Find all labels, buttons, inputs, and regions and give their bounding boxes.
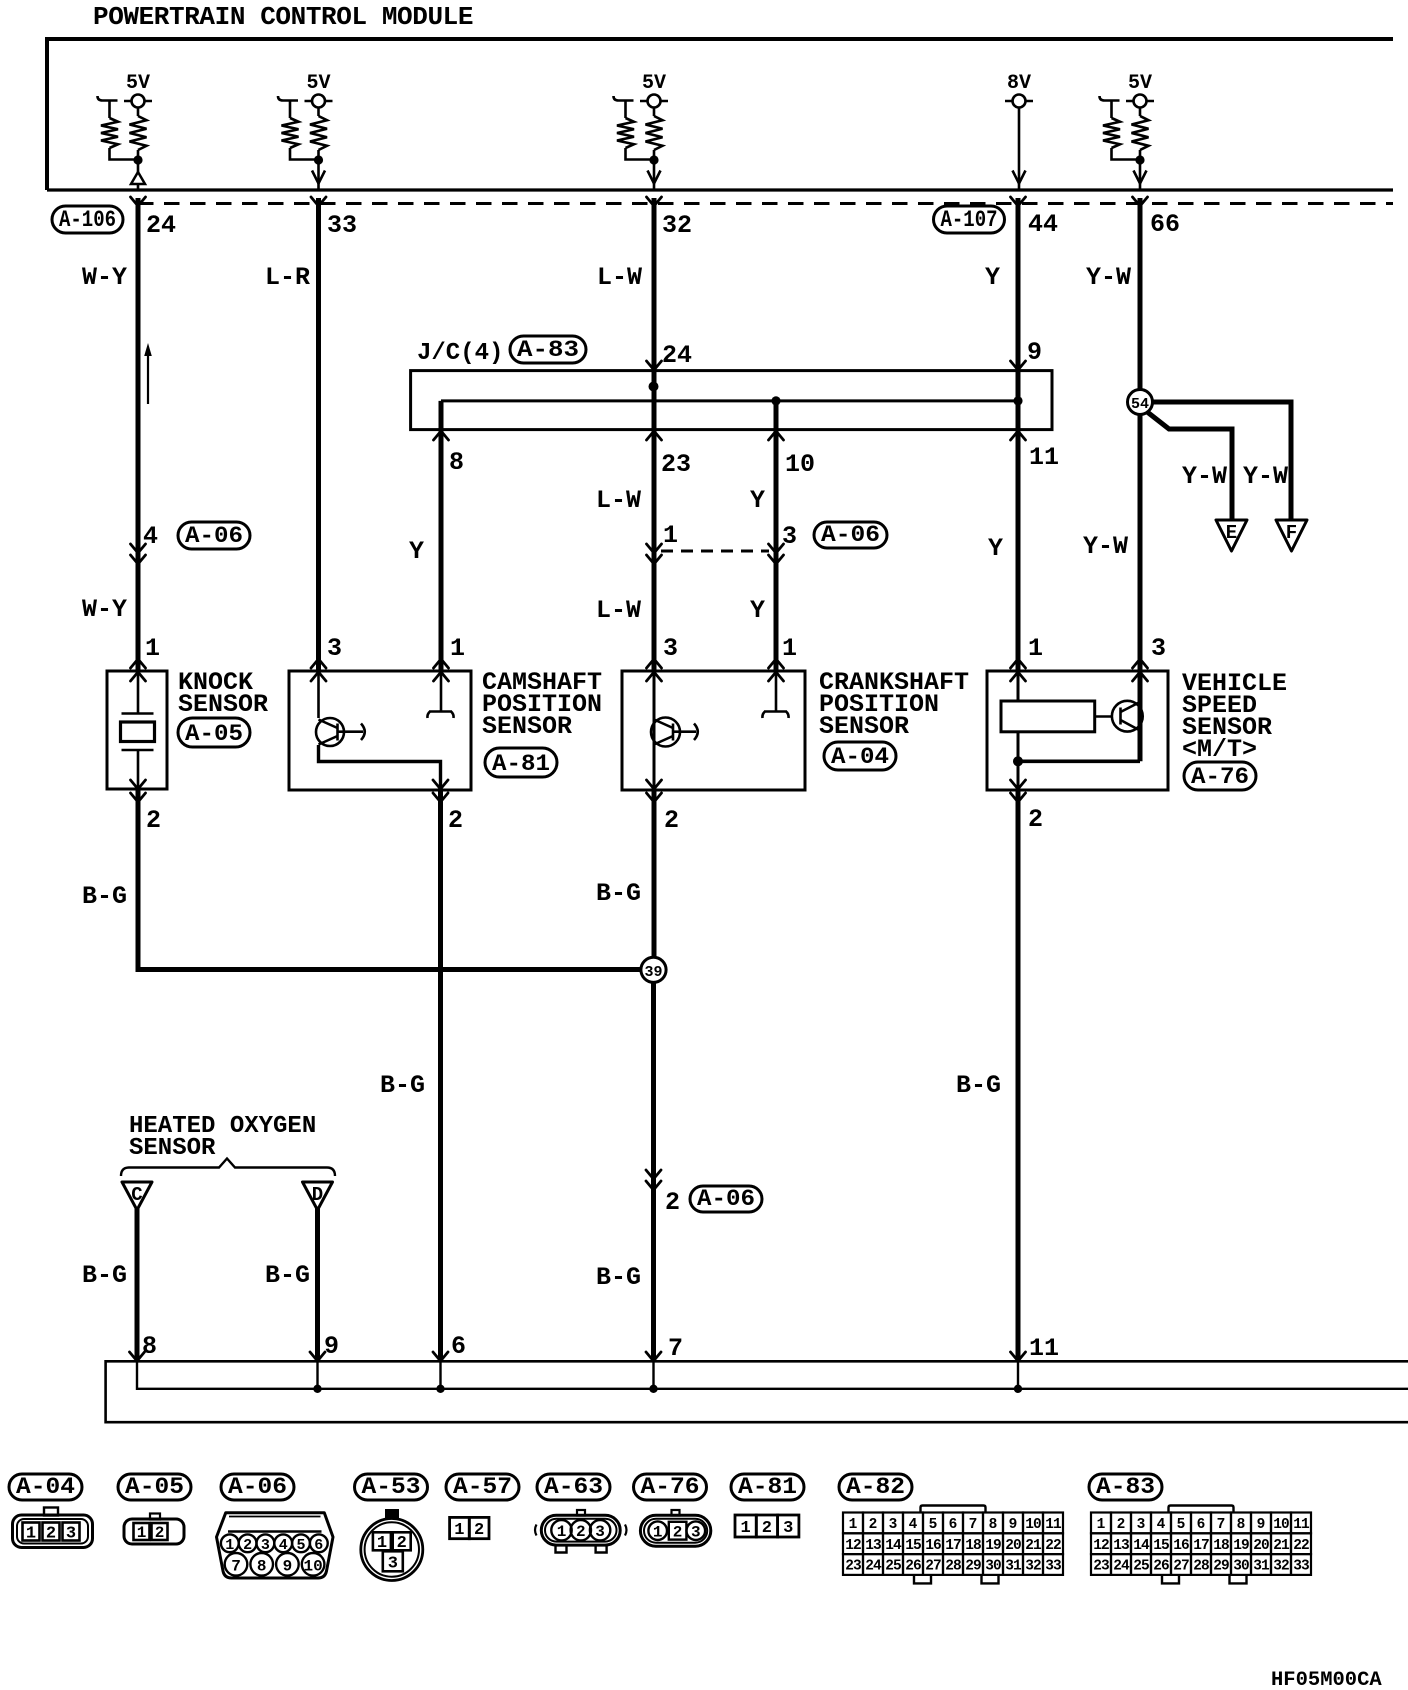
svg-text:9: 9 — [324, 1332, 339, 1361]
svg-text:26: 26 — [1153, 1559, 1169, 1575]
svg-text:A-05: A-05 — [125, 1474, 184, 1500]
svg-text:3: 3 — [691, 1524, 701, 1542]
svg-text:B-G: B-G — [596, 879, 641, 908]
svg-text:10: 10 — [785, 450, 815, 479]
vehicle speed sensor reed element — [1001, 701, 1095, 732]
svg-text:2: 2 — [397, 1534, 407, 1553]
heated oxygen sensor brace — [121, 1159, 335, 1177]
svg-text:<M/T>: <M/T> — [1182, 735, 1257, 764]
svg-text:32: 32 — [662, 211, 692, 240]
connector A-76 view — [640, 1515, 710, 1546]
svg-text:L-W: L-W — [596, 486, 641, 515]
svg-text:20: 20 — [1005, 1538, 1021, 1554]
svg-text:24: 24 — [662, 341, 692, 370]
svg-text:33: 33 — [1293, 1559, 1309, 1575]
svg-text:26: 26 — [905, 1559, 921, 1575]
svg-text:A-76: A-76 — [1191, 764, 1249, 790]
svg-text:5: 5 — [929, 1517, 938, 1533]
svg-text:11: 11 — [1045, 1517, 1062, 1533]
splice node 39 — [641, 957, 666, 982]
vehicle speed sensor pin 2 terminal — [1011, 780, 1026, 789]
ground bus pin 6 terminal — [433, 1352, 448, 1361]
svg-text:44: 44 — [1028, 210, 1058, 239]
wire B-G oxygen sensor C to ground bus pin 8 — [135, 1208, 140, 1361]
svg-text:5V: 5V — [126, 72, 150, 95]
svg-text:13: 13 — [865, 1538, 881, 1554]
svg-text:D: D — [312, 1184, 323, 1206]
svg-text:2: 2 — [673, 1524, 683, 1542]
svg-text:29: 29 — [1213, 1559, 1229, 1575]
svg-text:A-06: A-06 — [228, 1474, 287, 1500]
svg-text:A-53: A-53 — [362, 1474, 421, 1500]
camshaft sensor pin 1 stub — [440, 671, 443, 711]
svg-text:9: 9 — [1257, 1517, 1266, 1533]
camshaft position sensor box — [289, 671, 471, 790]
knock sensor pin 2 terminal — [131, 780, 146, 789]
svg-text:27: 27 — [1173, 1559, 1189, 1575]
svg-text:2: 2 — [155, 1524, 165, 1542]
connector A-106 label — [52, 206, 123, 233]
svg-text:E: E — [1226, 522, 1237, 544]
svg-text:1: 1 — [450, 634, 465, 663]
svg-text:32: 32 — [1025, 1559, 1041, 1575]
connector A-81 label — [485, 748, 557, 777]
ground F triangle — [1276, 520, 1307, 551]
svg-text:7: 7 — [231, 1558, 241, 1576]
svg-text:13: 13 — [1113, 1538, 1129, 1554]
svg-text:19: 19 — [1233, 1538, 1249, 1554]
svg-text:11: 11 — [1293, 1517, 1310, 1533]
svg-text:23: 23 — [661, 450, 691, 479]
svg-text:11: 11 — [1029, 1334, 1059, 1363]
connector A-05 label — [178, 718, 250, 747]
connector A-83 view — [1169, 1506, 1234, 1513]
svg-text:1: 1 — [740, 1519, 750, 1538]
connector A-05 caption — [118, 1474, 191, 1500]
svg-text:SENSOR: SENSOR — [129, 1135, 216, 1162]
connector A-06 label (middle) — [814, 522, 887, 548]
ground bus box — [106, 1361, 1408, 1422]
svg-text:6: 6 — [314, 1537, 323, 1554]
connector A-82 view — [921, 1506, 986, 1513]
wire B-G oxygen sensor D to ground bus pin 9 — [315, 1208, 320, 1361]
svg-text:8: 8 — [142, 1332, 157, 1361]
svg-text:B-G: B-G — [82, 882, 127, 911]
svg-text:54: 54 — [1131, 396, 1149, 413]
svg-text:3: 3 — [889, 1517, 898, 1533]
connector A-57 view — [450, 1517, 470, 1538]
svg-text:21: 21 — [1273, 1538, 1290, 1554]
svg-text:2: 2 — [1117, 1517, 1126, 1533]
connector A-57 caption — [446, 1474, 519, 1500]
svg-text:29: 29 — [965, 1559, 981, 1575]
wire Y pin 44 through J/C to vehicle speed sensor — [1016, 198, 1021, 671]
svg-text:W-Y: W-Y — [82, 263, 127, 292]
svg-text:A-06: A-06 — [185, 523, 243, 549]
J/C pin 9 terminal — [1011, 361, 1026, 370]
svg-text:8: 8 — [1237, 1517, 1246, 1533]
svg-text:5: 5 — [1177, 1517, 1186, 1533]
svg-text:B-G: B-G — [596, 1263, 641, 1292]
svg-text:16: 16 — [1173, 1538, 1189, 1554]
svg-text:30: 30 — [985, 1559, 1001, 1575]
svg-text:4: 4 — [909, 1517, 918, 1533]
svg-text:1: 1 — [1097, 1517, 1106, 1533]
svg-text:F: F — [1286, 522, 1297, 544]
svg-text:3: 3 — [261, 1537, 270, 1554]
PCM pin 44 terminal — [1011, 197, 1026, 206]
svg-text:10: 10 — [1025, 1517, 1041, 1533]
svg-text:A-76: A-76 — [641, 1474, 700, 1500]
PCM pin 24 terminal — [131, 197, 146, 206]
svg-text:A-04: A-04 — [831, 744, 889, 770]
svg-text:2: 2 — [1028, 805, 1043, 834]
svg-text:5V: 5V — [307, 72, 331, 95]
svg-text:B-G: B-G — [956, 1071, 1001, 1100]
svg-text:24: 24 — [865, 1559, 882, 1575]
ground E triangle — [1216, 520, 1247, 551]
ground bus internal wire — [137, 1361, 1408, 1389]
svg-text:1: 1 — [653, 1524, 663, 1542]
wire B-G splice 39 to ground bus pin 7 — [651, 982, 656, 1361]
svg-text:3: 3 — [1137, 1517, 1146, 1533]
svg-text:25: 25 — [1133, 1559, 1149, 1575]
PCM box outline — [47, 39, 1393, 190]
svg-text:7: 7 — [668, 1334, 683, 1363]
J/C pin 10 terminal — [769, 431, 784, 440]
svg-text:3: 3 — [327, 634, 342, 663]
connector A-76 label — [1184, 762, 1256, 790]
ground bus pin 11 terminal — [1011, 1352, 1026, 1361]
svg-text:3: 3 — [595, 1523, 605, 1541]
ground bus pin 7 terminal — [646, 1352, 661, 1361]
connector A-107 label — [934, 206, 1005, 233]
svg-text:1: 1 — [225, 1537, 234, 1554]
PCM pin 33 terminal — [311, 197, 326, 206]
svg-text:W-Y: W-Y — [82, 595, 127, 624]
wire branch to ground F — [1151, 402, 1291, 520]
svg-text:3: 3 — [1151, 634, 1166, 663]
crankshaft sensor element — [653, 671, 656, 789]
svg-text:A-06: A-06 — [821, 522, 880, 548]
svg-text:5V: 5V — [642, 72, 666, 95]
connector A-83 label (top) — [510, 336, 586, 363]
ground bus junction node 9 — [313, 1385, 321, 1393]
camshaft sensor element — [317, 671, 320, 718]
svg-text:J/C(4): J/C(4) — [417, 340, 503, 367]
svg-text:14: 14 — [1133, 1538, 1150, 1554]
svg-text:14: 14 — [885, 1538, 902, 1554]
svg-text:27: 27 — [925, 1559, 941, 1575]
wire B-G vehicle speed sensor to ground bus pin 11 — [1016, 789, 1021, 1361]
svg-text:2: 2 — [474, 1521, 484, 1540]
ground bus pin 9 terminal — [310, 1352, 325, 1361]
svg-text:24: 24 — [1113, 1559, 1130, 1575]
wire B-G crankshaft sensor to splice 39 — [652, 789, 657, 958]
svg-text:A-82: A-82 — [846, 1474, 905, 1500]
svg-text:2: 2 — [146, 806, 161, 835]
connector A-63 caption — [537, 1474, 610, 1500]
svg-text:16: 16 — [925, 1538, 941, 1554]
connector A-06 dashed link — [661, 550, 769, 553]
J/C internal bus wire — [441, 399, 1018, 402]
svg-text:12: 12 — [845, 1538, 861, 1554]
ground D triangle — [303, 1182, 333, 1210]
svg-text:A-81: A-81 — [738, 1474, 797, 1500]
connector A-06 label (lower) — [690, 1186, 762, 1212]
svg-text:28: 28 — [945, 1559, 961, 1575]
junction node on L-W wire — [649, 382, 659, 392]
connector A-06 label (left) — [178, 522, 250, 549]
crankshaft sensor pin 2 terminal — [647, 780, 662, 789]
svg-text:1: 1 — [1028, 634, 1043, 663]
connector A-53 view — [385, 1509, 399, 1518]
svg-text:17: 17 — [1193, 1538, 1209, 1554]
signal direction arrow — [147, 352, 149, 404]
svg-text:4: 4 — [1157, 1517, 1166, 1533]
splice node 54 — [1128, 390, 1153, 415]
svg-text:Y: Y — [750, 486, 765, 515]
junction node wire 11 — [1013, 396, 1022, 405]
wire Y-W pin 66 to vehicle speed sensor — [1138, 198, 1143, 761]
connector A-06 pin 2 marks (B-G wire) — [646, 1170, 661, 1179]
svg-text:SENSOR: SENSOR — [178, 690, 268, 719]
svg-text:15: 15 — [905, 1538, 921, 1554]
svg-text:22: 22 — [1293, 1538, 1309, 1554]
svg-text:15: 15 — [1153, 1538, 1169, 1554]
svg-text:1: 1 — [454, 1521, 464, 1540]
svg-text:1: 1 — [557, 1523, 567, 1541]
svg-text:66: 66 — [1150, 210, 1180, 239]
svg-text:2: 2 — [869, 1517, 878, 1533]
ground C triangle — [122, 1182, 152, 1210]
J/C pin 8 terminal — [434, 431, 449, 440]
svg-text:25: 25 — [885, 1559, 901, 1575]
svg-text:A-107: A-107 — [941, 207, 998, 233]
svg-text:6: 6 — [1197, 1517, 1206, 1533]
svg-text:2: 2 — [576, 1523, 586, 1541]
connector A-06 caption — [221, 1474, 294, 1500]
svg-text:2: 2 — [46, 1525, 56, 1544]
svg-text:24: 24 — [146, 211, 176, 240]
connector A-05 view — [124, 1519, 184, 1544]
svg-text:8: 8 — [449, 448, 464, 477]
svg-text:A-83: A-83 — [517, 337, 579, 363]
crankshaft sensor pin 1 stub — [775, 671, 778, 711]
svg-text:7: 7 — [969, 1517, 978, 1533]
svg-text:Y: Y — [985, 263, 1000, 292]
connector A-63 view — [541, 1515, 620, 1545]
vehicle speed sensor transistor — [1112, 701, 1143, 732]
svg-text:2: 2 — [448, 806, 463, 835]
svg-text:B-G: B-G — [265, 1261, 310, 1290]
svg-text:1: 1 — [377, 1534, 387, 1553]
svg-text:11: 11 — [1029, 443, 1059, 472]
J/C pin 11 terminal — [1011, 431, 1026, 440]
connector A-04 label — [824, 742, 896, 770]
svg-text:A-57: A-57 — [453, 1474, 512, 1500]
vehicle speed sensor box — [987, 671, 1168, 790]
svg-text:A-04: A-04 — [16, 1474, 75, 1500]
svg-text:7: 7 — [1217, 1517, 1226, 1533]
svg-text:18: 18 — [1213, 1538, 1229, 1554]
svg-text:B-G: B-G — [380, 1071, 425, 1100]
svg-text:4: 4 — [143, 522, 158, 551]
svg-text:A-106: A-106 — [59, 207, 116, 233]
svg-text:1: 1 — [145, 634, 160, 663]
svg-text:23: 23 — [845, 1559, 861, 1575]
svg-text:19: 19 — [985, 1538, 1001, 1554]
svg-text:SENSOR: SENSOR — [819, 712, 909, 741]
svg-text:L-R: L-R — [265, 263, 310, 292]
knock sensor box — [107, 671, 167, 789]
ground bus pin 8 terminal — [130, 1352, 145, 1361]
svg-text:1: 1 — [137, 1524, 147, 1542]
svg-text:9: 9 — [1009, 1517, 1018, 1533]
svg-text:POWERTRAIN CONTROL MODULE: POWERTRAIN CONTROL MODULE — [93, 2, 473, 32]
J/C(4) box — [411, 371, 1052, 430]
svg-text:A-63: A-63 — [544, 1474, 603, 1500]
ground bus junction node 6 — [436, 1385, 444, 1393]
svg-text:33: 33 — [1045, 1559, 1061, 1575]
svg-text:A-06: A-06 — [697, 1186, 755, 1212]
connector A-04 view — [13, 1515, 93, 1548]
svg-text:32: 32 — [1273, 1559, 1289, 1575]
svg-text:3: 3 — [783, 1519, 793, 1538]
svg-text:L-W: L-W — [596, 596, 641, 625]
svg-text:A-83: A-83 — [1096, 1474, 1155, 1500]
svg-text:4: 4 — [279, 1537, 288, 1554]
svg-text:28: 28 — [1193, 1559, 1209, 1575]
connector A-82 caption — [839, 1474, 912, 1500]
svg-text:3: 3 — [782, 522, 797, 551]
svg-text:31: 31 — [1253, 1559, 1270, 1575]
svg-text:1: 1 — [782, 634, 797, 663]
svg-text:SENSOR: SENSOR — [482, 712, 572, 741]
ground bus junction node 7 — [649, 1385, 657, 1393]
wire Y from J/C pin 8 to camshaft sensor pin 1 — [439, 401, 444, 671]
connector A-04 caption — [9, 1474, 82, 1500]
svg-text:8: 8 — [989, 1517, 998, 1533]
camshaft sensor pin 2 terminal — [433, 780, 448, 789]
connector A-81 caption — [731, 1474, 804, 1500]
svg-text:C: C — [131, 1184, 142, 1206]
svg-text:10: 10 — [303, 1558, 322, 1576]
vehicle speed sensor internal wiring — [1017, 671, 1020, 701]
J/C pin 23 terminal — [647, 431, 662, 440]
svg-text:10: 10 — [1273, 1517, 1289, 1533]
svg-text:12: 12 — [1093, 1538, 1109, 1554]
ground bus junction node 11 — [1014, 1385, 1022, 1393]
svg-text:3: 3 — [663, 634, 678, 663]
wire B-G knock sensor to splice 39 — [136, 789, 642, 970]
PCM pin 32 terminal — [647, 197, 662, 206]
svg-text:6: 6 — [949, 1517, 958, 1533]
svg-text:22: 22 — [1045, 1538, 1061, 1554]
wire L-W pin 32 through J/C to crankshaft sensor — [652, 198, 657, 671]
connector A-83 caption — [1089, 1474, 1162, 1500]
PCM pin 66 terminal — [1133, 197, 1148, 206]
knock sensor piezo element — [137, 671, 140, 713]
wire branch to ground E — [1146, 411, 1232, 520]
svg-text:8: 8 — [257, 1558, 267, 1576]
PCM connector dashed line — [138, 202, 1393, 205]
wire B-G camshaft sensor to ground bus pin 6 — [438, 789, 443, 1361]
svg-text:A-05: A-05 — [185, 721, 243, 747]
connector A-76 caption — [634, 1474, 707, 1500]
svg-text:L-W: L-W — [597, 263, 642, 292]
svg-text:9: 9 — [1027, 338, 1042, 367]
svg-text:2: 2 — [243, 1537, 252, 1554]
svg-text:8V: 8V — [1007, 72, 1031, 95]
svg-text:B-G: B-G — [82, 1261, 127, 1290]
connector A-53 caption — [355, 1474, 428, 1500]
svg-text:HF05M00CA: HF05M00CA — [1271, 1669, 1382, 1690]
svg-text:2: 2 — [664, 806, 679, 835]
wire Y from J/C pin 10 to crankshaft sensor pin 1 — [774, 401, 779, 671]
connector A-06 view — [217, 1513, 334, 1578]
svg-text:30: 30 — [1233, 1559, 1249, 1575]
J/C pin 24 terminal — [647, 361, 662, 370]
wire W-Y pin 24 to knock sensor — [136, 198, 141, 671]
svg-text:17: 17 — [945, 1538, 961, 1554]
connector A-81 view — [735, 1515, 756, 1537]
junction node wire 10 — [771, 396, 780, 405]
svg-text:1: 1 — [849, 1517, 858, 1533]
svg-text:3: 3 — [388, 1555, 398, 1574]
svg-text:33: 33 — [327, 211, 357, 240]
svg-text:Y-W: Y-W — [1083, 532, 1128, 561]
svg-text:21: 21 — [1025, 1538, 1042, 1554]
svg-text:9: 9 — [283, 1558, 293, 1576]
svg-text:20: 20 — [1253, 1538, 1269, 1554]
svg-text:Y: Y — [750, 596, 765, 625]
svg-text:5V: 5V — [1128, 72, 1152, 95]
svg-text:5: 5 — [296, 1537, 305, 1554]
svg-text:Y-W: Y-W — [1243, 462, 1288, 491]
svg-text:6: 6 — [451, 1332, 466, 1361]
wire L-R pin 33 to camshaft sensor — [316, 198, 321, 671]
svg-text:2: 2 — [665, 1188, 680, 1217]
svg-text:1: 1 — [26, 1525, 36, 1544]
svg-text:Y: Y — [988, 534, 1003, 563]
svg-text:Y: Y — [409, 537, 424, 566]
svg-text:1: 1 — [663, 521, 678, 550]
svg-text:39: 39 — [644, 964, 662, 981]
svg-text:31: 31 — [1005, 1559, 1022, 1575]
svg-text:2: 2 — [762, 1519, 772, 1538]
svg-text:18: 18 — [965, 1538, 981, 1554]
crankshaft position sensor box — [622, 671, 805, 790]
svg-text:3: 3 — [66, 1525, 76, 1544]
svg-text:23: 23 — [1093, 1559, 1109, 1575]
svg-text:A-81: A-81 — [492, 751, 550, 777]
svg-text:Y-W: Y-W — [1086, 263, 1131, 292]
svg-text:Y-W: Y-W — [1182, 462, 1227, 491]
